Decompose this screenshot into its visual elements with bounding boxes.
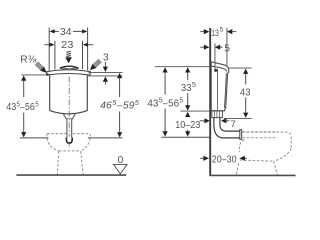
flush pipe (front) — [67, 119, 72, 142]
svg-text:43: 43 — [240, 87, 251, 98]
dimension 10-23 (side) — [185, 112, 190, 117]
svg-text:5: 5 — [35, 101, 39, 108]
svg-text:–: – — [116, 100, 123, 111]
dimension 3 (lid height) extension lines — [88, 72, 122, 76]
supply connection symbol left (coil + arrow) — [35, 62, 43, 70]
dimension 7 (flush pipe distance) — [200, 120, 205, 122]
svg-text:20–30: 20–30 — [212, 155, 237, 166]
wall line — [209, 28, 211, 176]
hidden flush pipe inside pan (dashed) — [243, 132, 277, 138]
dimension 46.5-59.5 (front right height) — [117, 73, 122, 78]
reference line (pan rim level, front) — [20, 137, 123, 139]
dimension 43.5-56.5 (front left height) — [22, 74, 49, 76]
svg-text:56: 56 — [168, 98, 179, 109]
svg-text:56: 56 — [25, 102, 35, 113]
dimension 13.5 (cistern depth) — [200, 31, 204, 33]
svg-text:7: 7 — [231, 119, 236, 130]
svg-text:43: 43 — [6, 102, 16, 113]
svg-text:5: 5 — [192, 82, 196, 89]
dimension 20-30 (wall to pan) — [200, 157, 204, 159]
WC pan (front view, dashed) — [47, 134, 91, 175]
flush pipe end cone — [66, 137, 72, 143]
supply inlet point (dot) — [214, 69, 217, 72]
press-actuation arrow onto flush button — [66, 51, 71, 56]
cistern (side view) — [211, 62, 229, 111]
svg-text:3: 3 — [103, 53, 109, 64]
junction dot at lid left lip — [46, 73, 49, 76]
svg-text:59: 59 — [123, 100, 135, 111]
svg-text:10–23: 10–23 — [175, 120, 201, 131]
reference line pan rim (side) — [161, 136, 209, 138]
cistern body (front) — [50, 75, 88, 114]
svg-text:46: 46 — [100, 100, 112, 111]
WC pan (side view, dashed) — [236, 132, 291, 175]
svg-text:⅜: ⅜ — [28, 55, 37, 66]
svg-text:13: 13 — [211, 28, 219, 38]
flush valve outlet nut (front) — [63, 114, 75, 119]
svg-text:5: 5 — [220, 27, 224, 34]
dimension 43.5-56.5 (side) — [163, 67, 168, 72]
cistern outlet nut (side) — [212, 111, 223, 118]
flush bend pipe (side) — [214, 118, 242, 140]
extension line cistern top (side, left) — [155, 66, 209, 68]
svg-text:23: 23 — [61, 40, 74, 51]
svg-text:R: R — [20, 55, 27, 66]
floor line (side) — [209, 174, 295, 176]
dimension 34 (cistern width) — [49, 28, 87, 71]
svg-text:5: 5 — [135, 100, 139, 107]
flush button oval — [60, 66, 79, 70]
centre line of cistern (dash-dot) — [68, 77, 70, 147]
dimension 33.5 (side) — [185, 67, 190, 72]
floor line (front) — [16, 174, 126, 176]
svg-text:34: 34 — [60, 27, 72, 38]
svg-text:33: 33 — [181, 83, 192, 94]
dimension 43 (side right) — [229, 67, 252, 69]
svg-text:43: 43 — [147, 98, 158, 109]
svg-text:5: 5 — [224, 43, 230, 54]
dimension 5 (supply position) — [200, 46, 204, 48]
supply connection symbol right (coil + arrow) — [93, 59, 101, 67]
dimension 23 (flush button width) — [44, 41, 93, 70]
svg-text:5: 5 — [179, 98, 183, 105]
cistern lid (front) — [47, 70, 91, 75]
extension line cistern bottom (side, left) — [180, 110, 209, 112]
